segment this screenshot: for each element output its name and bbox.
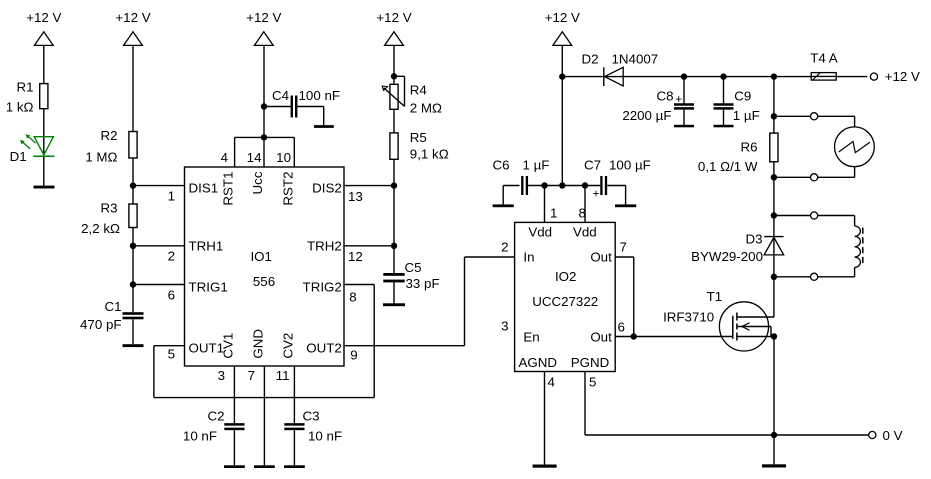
- svg-text:UCC27322: UCC27322: [532, 294, 598, 309]
- svg-text:0,1 Ω/1 W: 0,1 Ω/1 W: [698, 159, 758, 174]
- svg-text:13: 13: [348, 189, 363, 204]
- svg-text:DIS1: DIS1: [189, 180, 219, 195]
- svg-text:1 µF: 1 µF: [523, 158, 550, 173]
- svg-text:GND: GND: [250, 329, 265, 359]
- svg-text:R2: R2: [100, 128, 117, 143]
- svg-text:9: 9: [350, 348, 357, 363]
- svg-text:C7: C7: [584, 158, 601, 173]
- svg-text:IO2: IO2: [555, 269, 576, 284]
- svg-text:9,1 kΩ: 9,1 kΩ: [410, 146, 449, 161]
- svg-text:10 nF: 10 nF: [308, 429, 342, 444]
- svg-text:BYW29-200: BYW29-200: [691, 249, 763, 264]
- svg-text:4: 4: [221, 150, 229, 165]
- svg-text:+12 V: +12 V: [376, 10, 411, 25]
- svg-text:1: 1: [550, 205, 557, 220]
- svg-text:RST1: RST1: [221, 172, 236, 206]
- svg-text:En: En: [523, 329, 539, 344]
- svg-text:C6: C6: [493, 158, 510, 173]
- svg-text:+12 V: +12 V: [246, 10, 281, 25]
- svg-text:Vdd: Vdd: [573, 224, 597, 239]
- svg-text:2 MΩ: 2 MΩ: [410, 101, 442, 116]
- svg-text:+12 V: +12 V: [885, 69, 920, 84]
- svg-text:+12 V: +12 V: [545, 10, 580, 25]
- svg-text:5: 5: [589, 374, 596, 389]
- svg-text:1 µF: 1 µF: [733, 108, 760, 123]
- svg-text:CV1: CV1: [220, 333, 235, 359]
- svg-text:DIS2: DIS2: [312, 180, 342, 195]
- svg-text:4: 4: [548, 374, 556, 389]
- svg-text:6: 6: [168, 287, 175, 302]
- svg-text:+: +: [675, 92, 682, 106]
- svg-text:3: 3: [218, 368, 225, 383]
- svg-text:IO1: IO1: [250, 249, 271, 264]
- svg-text:R5: R5: [410, 130, 427, 145]
- svg-text:IRF3710: IRF3710: [663, 309, 714, 324]
- svg-text:C5: C5: [405, 260, 422, 275]
- svg-text:100 nF: 100 nF: [299, 88, 341, 103]
- svg-text:C9: C9: [734, 88, 751, 103]
- svg-text:C8: C8: [656, 88, 673, 103]
- svg-text:8: 8: [579, 205, 586, 220]
- svg-text:14: 14: [247, 150, 262, 165]
- svg-text:PGND: PGND: [571, 355, 610, 370]
- svg-text:1: 1: [168, 189, 175, 204]
- svg-text:100 µF: 100 µF: [609, 158, 651, 173]
- svg-text:C2: C2: [207, 409, 224, 424]
- svg-text:R1: R1: [16, 79, 33, 94]
- svg-text:+12 V: +12 V: [26, 10, 61, 25]
- svg-text:6: 6: [618, 320, 625, 335]
- svg-text:In: In: [523, 249, 534, 264]
- svg-text:+12 V: +12 V: [115, 10, 150, 25]
- svg-text:2,2 kΩ: 2,2 kΩ: [81, 221, 120, 236]
- svg-text:470 pF: 470 pF: [80, 317, 122, 332]
- svg-text:5: 5: [168, 346, 175, 361]
- svg-text:8: 8: [349, 290, 356, 305]
- svg-text:R6: R6: [740, 140, 757, 155]
- svg-text:2: 2: [168, 249, 175, 264]
- svg-text:D2: D2: [582, 52, 599, 67]
- svg-text:0 V: 0 V: [883, 428, 903, 443]
- svg-text:TRH1: TRH1: [189, 239, 224, 254]
- svg-text:2: 2: [501, 239, 508, 254]
- svg-text:OUT1: OUT1: [189, 340, 225, 355]
- svg-text:T4 A: T4 A: [810, 50, 838, 65]
- svg-text:1 kΩ: 1 kΩ: [6, 100, 34, 115]
- svg-text:C4: C4: [272, 88, 290, 103]
- svg-text:7: 7: [620, 240, 627, 255]
- svg-text:RST2: RST2: [280, 172, 295, 206]
- svg-text:556: 556: [253, 274, 275, 289]
- svg-text:OUT2: OUT2: [306, 340, 342, 355]
- svg-text:10 nF: 10 nF: [183, 429, 217, 444]
- svg-text:Out: Out: [590, 329, 612, 344]
- svg-text:Out: Out: [590, 249, 612, 264]
- svg-text:T1: T1: [707, 289, 723, 304]
- svg-text:Vdd: Vdd: [528, 224, 552, 239]
- svg-text:Ucc: Ucc: [250, 171, 265, 194]
- svg-text:1N4007: 1N4007: [612, 52, 659, 67]
- svg-text:3: 3: [501, 318, 508, 333]
- svg-text:7: 7: [248, 368, 255, 383]
- svg-text:AGND: AGND: [519, 355, 558, 370]
- svg-text:D1: D1: [10, 149, 27, 164]
- svg-text:CV2: CV2: [280, 333, 295, 359]
- svg-text:R3: R3: [100, 201, 117, 216]
- svg-text:1 MΩ: 1 MΩ: [85, 149, 117, 164]
- svg-text:TRIG2: TRIG2: [303, 280, 342, 295]
- svg-text:C1: C1: [104, 299, 121, 314]
- svg-text:10: 10: [276, 150, 291, 165]
- svg-text:TRH2: TRH2: [307, 239, 342, 254]
- svg-text:33 pF: 33 pF: [406, 276, 440, 291]
- svg-text:12: 12: [348, 249, 363, 264]
- svg-text:+: +: [593, 187, 600, 201]
- svg-text:2200 µF: 2200 µF: [622, 108, 671, 123]
- svg-text:C3: C3: [303, 409, 320, 424]
- svg-text:TRIG1: TRIG1: [189, 280, 228, 295]
- svg-text:11: 11: [276, 368, 290, 383]
- svg-text:R4: R4: [410, 82, 428, 97]
- svg-text:D3: D3: [745, 231, 762, 246]
